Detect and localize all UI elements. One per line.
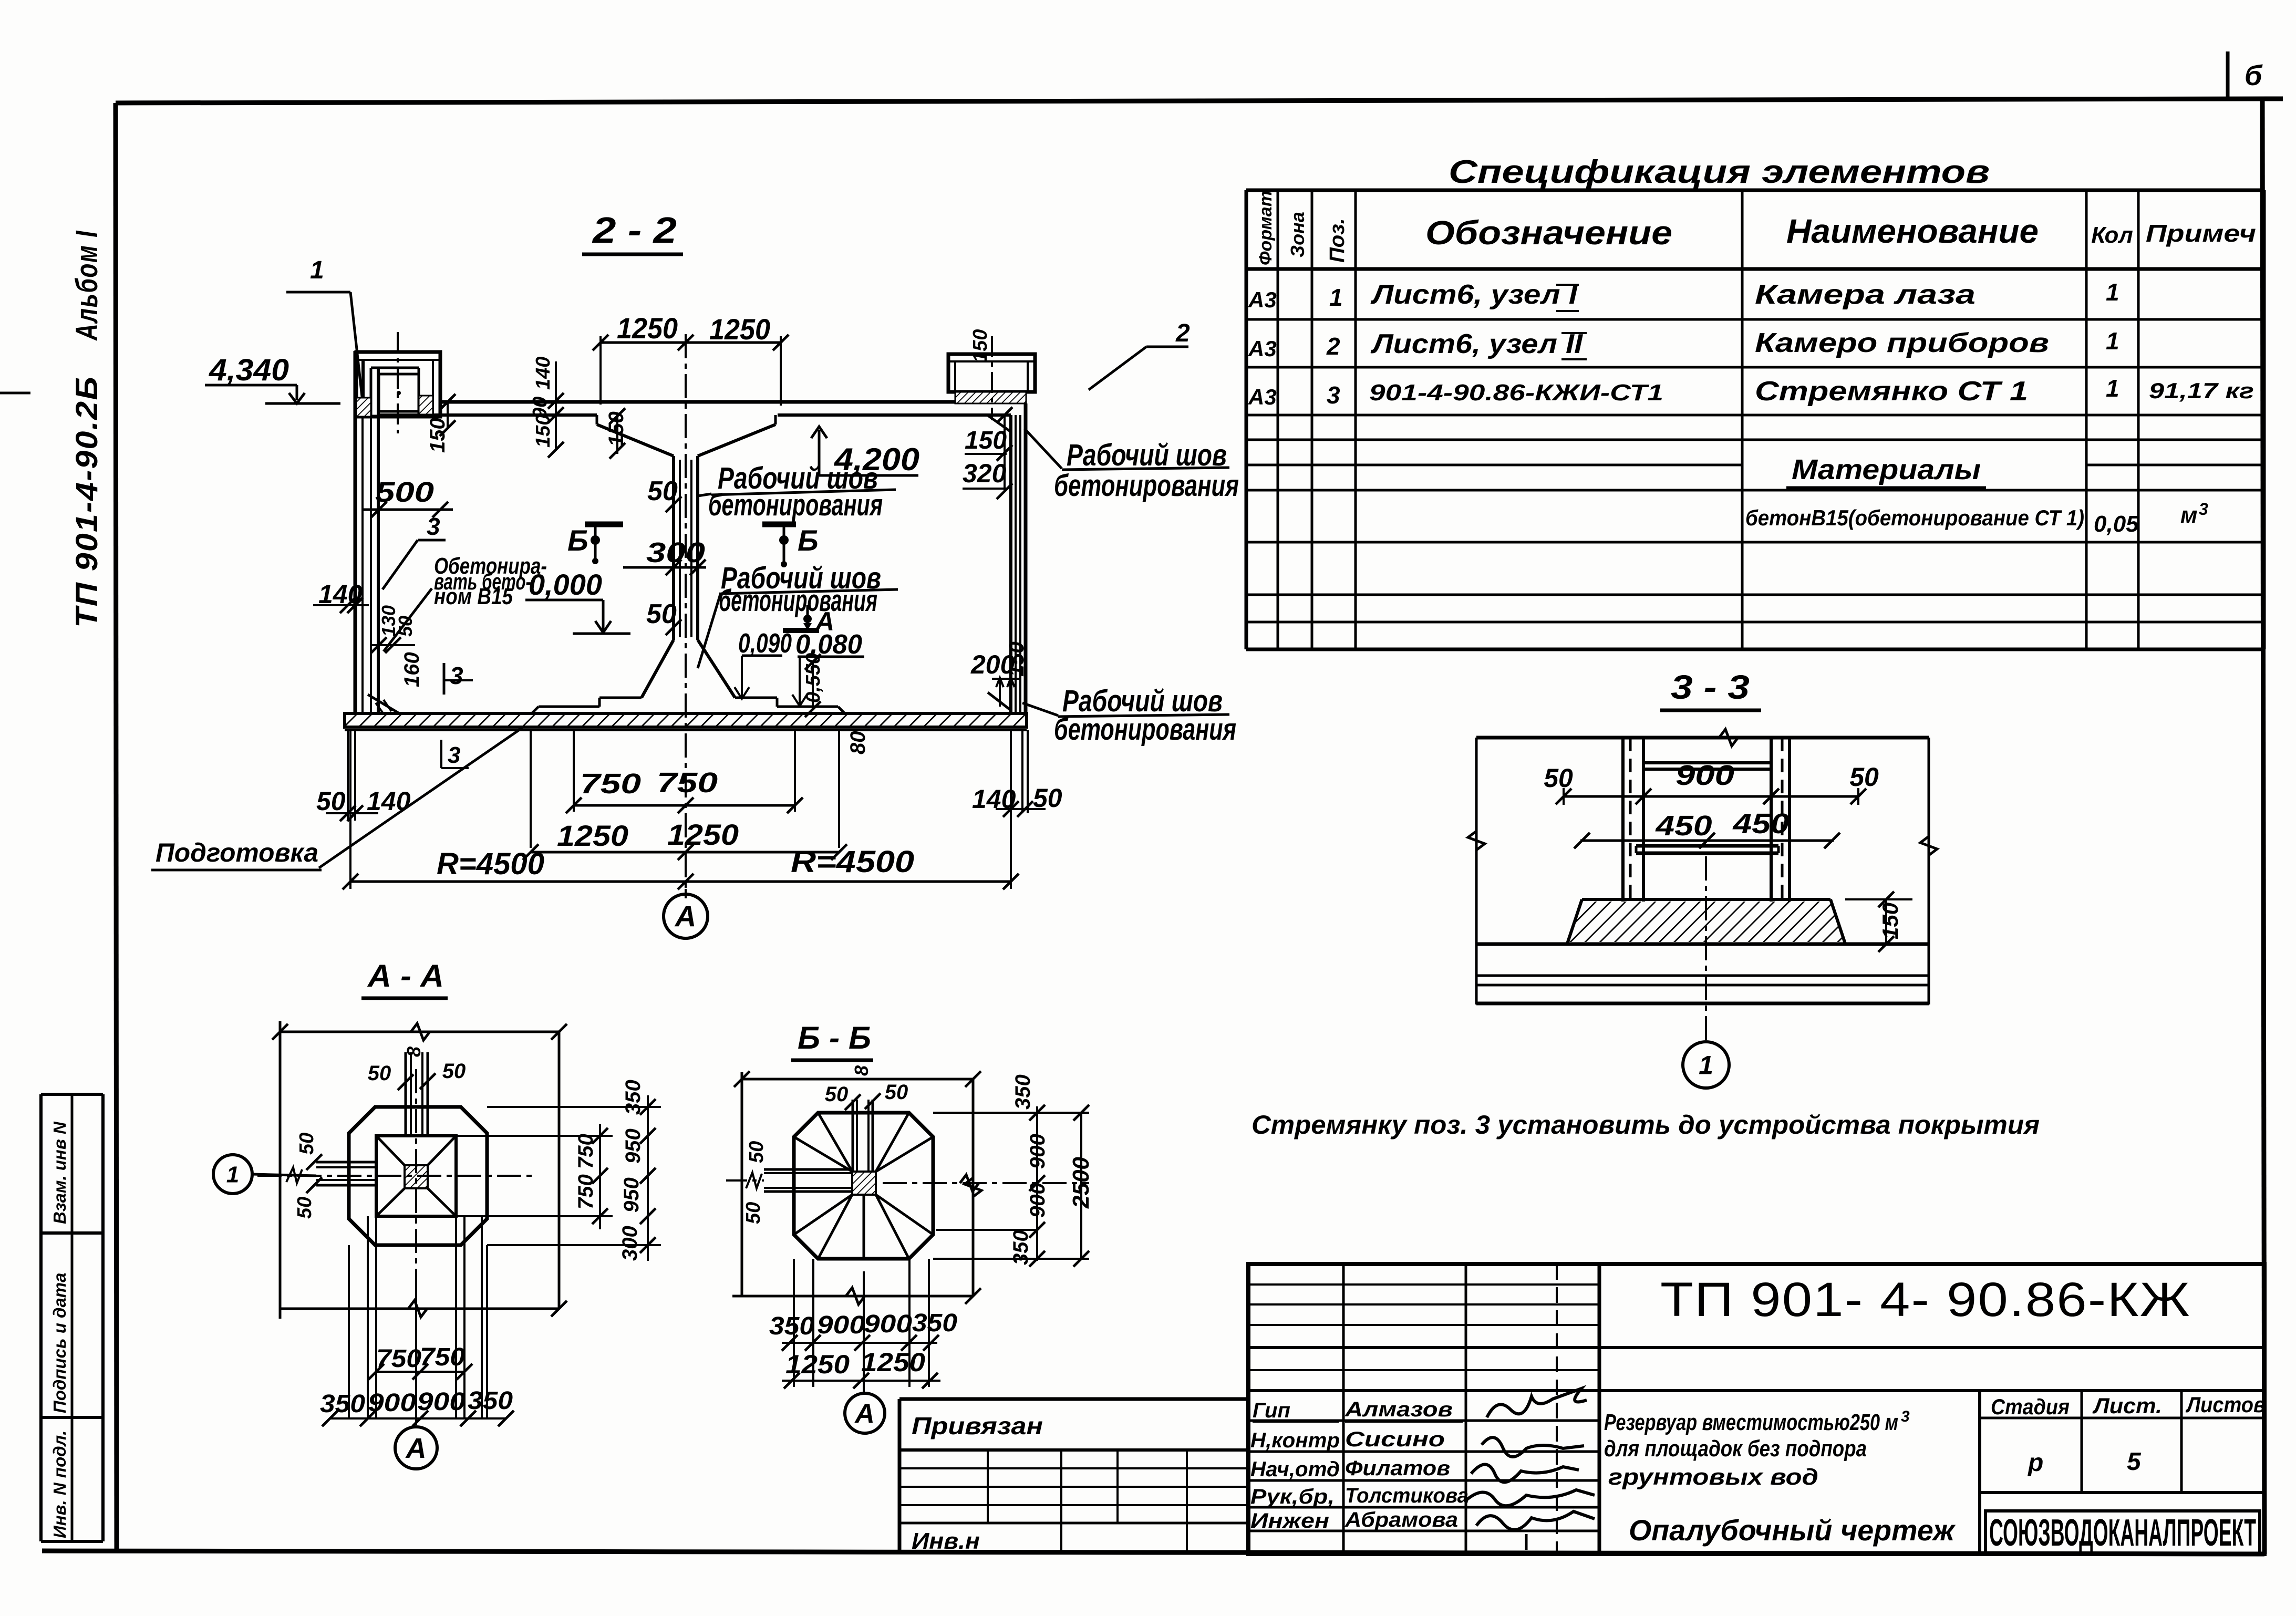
svg-text:грунтовых вод: грунтовых вод — [1608, 1464, 1818, 1490]
svg-text:Лист6, узел II: Лист6, узел II — [1370, 329, 1584, 359]
svg-text:А - А: А - А — [367, 958, 444, 993]
svg-text:150: 150 — [426, 418, 449, 453]
svg-text:Подготовка: Подготовка — [156, 838, 318, 867]
svg-text:1250: 1250 — [709, 313, 770, 346]
svg-text:2 - 2: 2 - 2 — [592, 210, 677, 251]
svg-text:50: 50 — [647, 476, 678, 506]
svg-text:50: 50 — [646, 599, 677, 629]
svg-text:бетонирования: бетонирования — [708, 488, 883, 522]
svg-text:1: 1 — [226, 1162, 239, 1187]
svg-text:Поз.: Поз. — [1326, 218, 1349, 263]
svg-text:3: 3 — [2199, 500, 2208, 519]
svg-text:А: А — [854, 1399, 875, 1429]
svg-text:3: 3 — [427, 513, 440, 540]
svg-text:8: 8 — [403, 1047, 425, 1057]
svg-text:м: м — [2180, 502, 2198, 528]
svg-text:Обозначение: Обозначение — [1425, 214, 1672, 252]
svg-text:950: 950 — [622, 1128, 645, 1164]
svg-text:750: 750 — [657, 767, 718, 799]
svg-text:320: 320 — [963, 459, 1007, 488]
svg-text:50: 50 — [742, 1202, 764, 1224]
svg-text:150: 150 — [969, 329, 991, 362]
svg-text:350: 350 — [1009, 1230, 1032, 1265]
svg-text:2500: 2500 — [1068, 1157, 1094, 1209]
svg-text:1250: 1250 — [861, 1348, 925, 1377]
svg-text:50: 50 — [1849, 762, 1879, 792]
svg-text:Гип: Гип — [1253, 1399, 1290, 1422]
svg-text:50: 50 — [825, 1083, 849, 1106]
svg-text:Б: Б — [567, 524, 588, 557]
svg-text:50: 50 — [296, 1133, 318, 1155]
svg-text:Материалы: Материалы — [1792, 454, 1981, 485]
svg-text:Спецификация элементов: Спецификация элементов — [1449, 154, 1990, 190]
svg-text:Примеч: Примеч — [2146, 220, 2256, 247]
svg-text:Стремянку поз. 3 установить: Стремянку поз. 3 установить до устройств… — [1252, 1110, 2040, 1140]
svg-text:Подпись и дата: Подпись и дата — [50, 1273, 69, 1414]
svg-text:Опалубочный чертеж: Опалубочный чертеж — [1629, 1514, 1956, 1547]
svg-text:R=4500: R=4500 — [791, 845, 914, 879]
svg-text:Зона: Зона — [1287, 212, 1308, 257]
svg-text:бетонирования: бетонирования — [1054, 469, 1239, 503]
svg-text:50: 50 — [395, 616, 416, 637]
svg-text:350: 350 — [769, 1312, 814, 1340]
svg-text:1250: 1250 — [617, 312, 678, 345]
svg-text:б: б — [2245, 60, 2263, 91]
svg-text:900: 900 — [1676, 760, 1734, 791]
svg-text:Привязан: Привязан — [912, 1412, 1043, 1439]
svg-text:1: 1 — [310, 256, 324, 284]
svg-text:901-4-90.86-КЖИ-СТ1: 901-4-90.86-КЖИ-СТ1 — [1369, 380, 1663, 406]
svg-text:350: 350 — [320, 1390, 365, 1418]
svg-text:Абрамова: Абрамова — [1344, 1508, 1458, 1531]
svg-text:Наименование: Наименование — [1786, 212, 2039, 250]
svg-text:50: 50 — [294, 1197, 316, 1219]
svg-text:ТП 901- 4- 90.86-КЖ: ТП 901- 4- 90.86-КЖ — [1660, 1273, 2191, 1327]
svg-text:Альбом I: Альбом I — [70, 230, 104, 341]
svg-text:3: 3 — [1327, 381, 1340, 409]
svg-text:Лист.: Лист. — [2092, 1393, 2162, 1418]
svg-text:Инв.н: Инв.н — [912, 1528, 980, 1554]
svg-text:бетонирования: бетонирования — [1054, 712, 1236, 747]
svg-text:Сисино: Сисино — [1345, 1428, 1445, 1451]
svg-text:1: 1 — [1699, 1051, 1713, 1080]
svg-text:750: 750 — [376, 1345, 421, 1373]
svg-text:Лист6, узел I: Лист6, узел I — [1370, 279, 1578, 310]
svg-text:900: 900 — [1026, 1134, 1049, 1169]
svg-text:900: 900 — [1026, 1183, 1049, 1218]
svg-text:750: 750 — [574, 1134, 597, 1169]
svg-text:Нач,отд: Нач,отд — [1250, 1458, 1340, 1481]
svg-text:R=4500: R=4500 — [437, 847, 544, 881]
svg-text:900: 900 — [864, 1310, 912, 1338]
svg-text:50: 50 — [442, 1060, 466, 1083]
svg-text:бетонирования: бетонирования — [719, 584, 877, 618]
svg-text:ном В15: ном В15 — [434, 584, 513, 609]
svg-text:3 - 3: 3 - 3 — [1671, 668, 1750, 706]
svg-text:А3: А3 — [1248, 287, 1277, 312]
svg-text:2: 2 — [1175, 319, 1190, 347]
svg-text:Формат: Формат — [1256, 191, 1276, 265]
svg-text:А: А — [814, 607, 834, 636]
svg-text:1250: 1250 — [785, 1350, 850, 1379]
svg-text:Листов: Листов — [2185, 1392, 2266, 1417]
svg-text:900: 900 — [817, 1311, 865, 1339]
svg-text:Б: Б — [798, 524, 819, 557]
svg-text:50: 50 — [1544, 763, 1573, 793]
svg-text:950: 950 — [620, 1177, 643, 1213]
svg-text:Рук,бр,: Рук,бр, — [1250, 1485, 1335, 1508]
svg-text:1250: 1250 — [557, 819, 628, 852]
svg-text:А3: А3 — [1248, 336, 1277, 361]
svg-text:3: 3 — [450, 662, 463, 689]
svg-text:8: 8 — [851, 1065, 872, 1076]
svg-text:Б - Б: Б - Б — [798, 1020, 871, 1055]
svg-text:50: 50 — [885, 1081, 908, 1104]
svg-text:бетонВ15(обетонирование СТ 1): бетонВ15(обетонирование СТ 1) — [1745, 505, 2084, 530]
svg-text:140: 140 — [367, 786, 411, 816]
svg-text:Филатов: Филатов — [1345, 1457, 1450, 1480]
svg-text:Стремянко СТ 1: Стремянко СТ 1 — [1755, 376, 2028, 407]
svg-text:Стадия: Стадия — [1991, 1394, 2070, 1419]
svg-text:4,340: 4,340 — [209, 353, 289, 387]
svg-text:3: 3 — [1901, 1408, 1910, 1425]
svg-text:0,05: 0,05 — [2094, 511, 2139, 537]
svg-text:р: р — [2027, 1449, 2043, 1477]
svg-text:750: 750 — [574, 1174, 597, 1209]
svg-text:для площадок без подпора: для площадок без подпора — [1604, 1436, 1867, 1462]
svg-text:Взам. инв N: Взам. инв N — [50, 1121, 69, 1224]
svg-text:СОЮЗВОДОКАНАЛПРОЕКТ: СОЮЗВОДОКАНАЛПРОЕКТ — [1989, 1512, 2256, 1554]
svg-text:Камера лаза: Камера лаза — [1755, 279, 1976, 310]
svg-text:5: 5 — [2127, 1448, 2142, 1476]
svg-text:Инжен: Инжен — [1250, 1509, 1329, 1532]
svg-text:1: 1 — [2106, 278, 2119, 306]
svg-text:Камеро приборов: Камеро приборов — [1755, 328, 2049, 358]
svg-text:Толстикова: Толстикова — [1345, 1484, 1468, 1507]
svg-text:150: 150 — [1878, 903, 1902, 939]
svg-text:450: 450 — [1655, 810, 1712, 842]
svg-text:50: 50 — [368, 1062, 391, 1085]
svg-text:140: 140 — [532, 357, 554, 390]
svg-text:А: А — [405, 1433, 427, 1464]
svg-text:Алмазов: Алмазов — [1344, 1398, 1453, 1421]
svg-text:1: 1 — [2106, 327, 2119, 355]
svg-text:350: 350 — [622, 1080, 645, 1115]
svg-text:50: 50 — [746, 1141, 768, 1163]
svg-text:750: 750 — [580, 768, 641, 800]
svg-text:1: 1 — [2106, 375, 2119, 402]
svg-text:ТП 901-4-90.2Б: ТП 901-4-90.2Б — [70, 376, 104, 628]
svg-text:91,17 кг: 91,17 кг — [2149, 378, 2254, 403]
svg-text:200: 200 — [970, 650, 1015, 679]
svg-text:Кол: Кол — [2091, 222, 2133, 248]
svg-text:Резервуар вместимостью250 м: Резервуар вместимостью250 м — [1604, 1410, 1898, 1435]
svg-text:3: 3 — [448, 742, 460, 768]
svg-text:150: 150 — [965, 427, 1007, 454]
svg-text:350: 350 — [1011, 1074, 1035, 1110]
svg-text:160: 160 — [400, 652, 423, 687]
svg-text:Н,контр: Н,контр — [1250, 1429, 1340, 1452]
svg-text:2: 2 — [1326, 333, 1340, 360]
svg-text:1: 1 — [1329, 284, 1343, 311]
svg-text:900: 900 — [417, 1388, 466, 1416]
svg-text:450: 450 — [1732, 808, 1789, 840]
svg-text:50: 50 — [316, 786, 346, 816]
svg-text:80: 80 — [846, 731, 870, 755]
svg-text:А3: А3 — [1248, 385, 1277, 409]
svg-text:1250: 1250 — [667, 818, 739, 851]
svg-text:А: А — [674, 900, 696, 933]
svg-text:Инв. N подл.: Инв. N подл. — [50, 1431, 69, 1538]
svg-text:350: 350 — [912, 1309, 957, 1337]
svg-text:300: 300 — [618, 1226, 642, 1261]
